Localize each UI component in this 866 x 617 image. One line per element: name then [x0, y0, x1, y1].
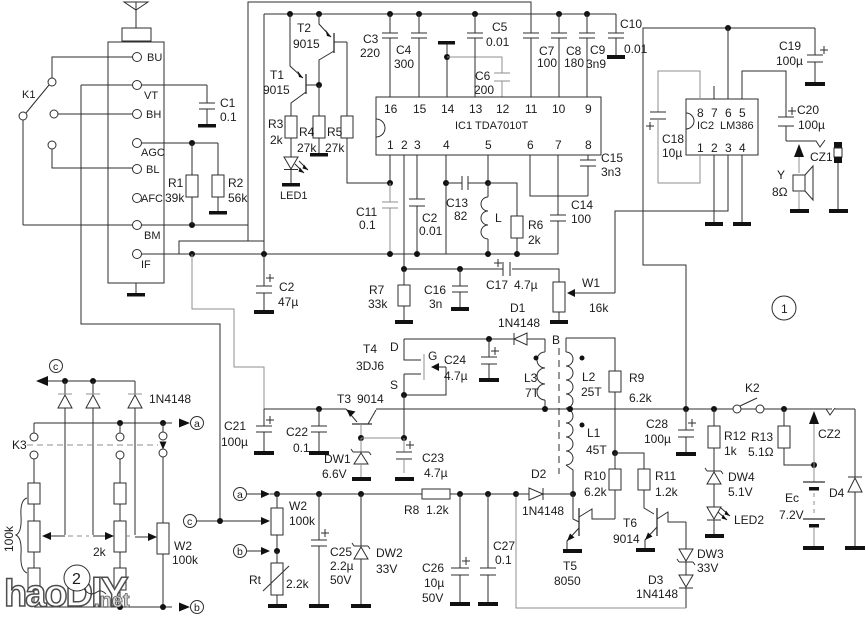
pin 13 — [469, 102, 483, 116]
svg-text:0.01: 0.01 — [486, 35, 510, 49]
svg-text:C10: C10 — [620, 17, 642, 31]
transformer B label — [552, 333, 560, 347]
junction a-W2 — [274, 491, 280, 497]
ground C23 — [395, 477, 414, 481]
ground Ec — [803, 546, 824, 550]
wire VT row — [81, 84, 207, 86]
wire row pin2 feed — [404, 269, 559, 282]
capacitor C23 — [396, 438, 448, 480]
svg-text:2: 2 — [711, 141, 718, 155]
svg-text:T4: T4 — [363, 342, 377, 356]
pin 10 — [552, 102, 566, 116]
svg-text:9015: 9015 — [263, 83, 290, 97]
svg-text:9014: 9014 — [613, 532, 640, 546]
potentiometer W2b 100k — [126, 457, 199, 607]
ground C22 — [309, 451, 329, 455]
svg-text:2k: 2k — [93, 545, 107, 559]
battery Ec — [779, 465, 825, 546]
capacitor C1 — [199, 85, 237, 124]
ground Rt — [268, 604, 287, 608]
svg-text:7: 7 — [555, 138, 562, 152]
junction pin6 top — [725, 25, 731, 31]
svg-text:50V: 50V — [422, 591, 443, 605]
svg-text:100µ: 100µ — [776, 54, 803, 68]
svg-text:0.1: 0.1 — [495, 553, 512, 567]
junction rail-R6 — [514, 251, 520, 257]
transistor T3 9014 — [337, 392, 384, 438]
svg-text:R2: R2 — [228, 176, 244, 190]
svg-text:33V: 33V — [376, 562, 397, 576]
svg-text:LED1: LED1 — [280, 190, 308, 202]
potentiometer W1 — [553, 276, 615, 320]
capacitor C2 pin3 — [409, 155, 443, 254]
resistor R6 — [488, 183, 544, 254]
pin 1 IC2 — [697, 141, 704, 155]
svg-text:C2: C2 — [422, 211, 438, 225]
junction T1 emitter rail — [287, 11, 293, 17]
svg-text:9015: 9015 — [293, 37, 320, 51]
terminal AGC — [133, 139, 165, 160]
wire BL to K1 — [52, 149, 133, 168]
switch K3 — [12, 423, 167, 459]
svg-text:1: 1 — [387, 138, 394, 152]
svg-text:C6: C6 — [475, 69, 491, 83]
svg-text:8: 8 — [585, 138, 592, 152]
svg-text:BL: BL — [146, 164, 159, 176]
node b source — [234, 545, 271, 559]
ground speaker — [790, 209, 809, 213]
svg-text:100k: 100k — [289, 514, 316, 528]
diode K3a 1N4148 — [58, 381, 72, 535]
svg-text:16: 16 — [384, 102, 398, 116]
node c top marker — [50, 360, 63, 374]
svg-text:47µ: 47µ — [278, 295, 298, 309]
svg-text:BH: BH — [146, 109, 161, 121]
junction rail-C2e — [261, 251, 267, 257]
pin 2 — [401, 138, 408, 152]
junction L1 L2 tap — [567, 406, 573, 412]
svg-text:b: b — [237, 546, 243, 558]
pin 6 IC2 — [725, 106, 732, 120]
LED LED2 — [707, 507, 764, 534]
svg-text:6.6V: 6.6V — [322, 467, 347, 481]
node 2 marker — [64, 565, 106, 594]
wire c bus with arrow — [36, 376, 135, 386]
svg-text:56k: 56k — [228, 191, 248, 205]
svg-text:6.2k: 6.2k — [584, 485, 608, 499]
capacitor C13 — [446, 176, 488, 223]
capacitor C9 — [579, 11, 606, 97]
svg-text:W2: W2 — [174, 539, 192, 553]
diode D2 1N4148 — [516, 467, 573, 518]
svg-text:100µ: 100µ — [798, 118, 825, 132]
svg-text:T3: T3 — [337, 392, 351, 406]
svg-text:14: 14 — [441, 102, 455, 116]
ground W1 — [550, 320, 568, 324]
svg-text:300: 300 — [394, 57, 414, 71]
wire pin6 drop — [727, 28, 729, 99]
junction D1-C24 — [486, 336, 492, 342]
svg-text:16k: 16k — [589, 301, 609, 315]
svg-text:C28: C28 — [646, 417, 668, 431]
junction C23 — [401, 435, 407, 441]
svg-text:C5: C5 — [492, 20, 508, 34]
inductor L3 — [524, 339, 545, 409]
capacitor C8 — [551, 11, 584, 97]
svg-text:VT: VT — [144, 90, 158, 102]
resistor R3 — [268, 116, 297, 157]
junction c-VT — [217, 518, 223, 524]
wire pin5 — [487, 155, 489, 183]
ground C24 — [479, 378, 499, 382]
svg-text:C27: C27 — [493, 539, 515, 553]
node a source — [234, 488, 271, 502]
capacitor C20 — [742, 71, 825, 141]
op-amp U1 IC1 TDA7010T body — [376, 97, 601, 155]
wire pin1 — [389, 155, 391, 183]
svg-text:6.2k: 6.2k — [629, 391, 653, 405]
diode D1 1N4148 — [489, 301, 545, 345]
svg-text:27k: 27k — [325, 141, 345, 155]
svg-text:S: S — [390, 378, 398, 392]
wire c to W2 wiper — [196, 517, 270, 525]
svg-text:LED2: LED2 — [734, 513, 764, 527]
svg-text:2: 2 — [401, 138, 408, 152]
wire W1 wiper to IC2 pin3 — [615, 155, 728, 293]
svg-text:C18: C18 — [662, 132, 684, 146]
svg-text:100k: 100k — [2, 525, 16, 552]
pin 1 — [387, 138, 394, 152]
ground C10 — [607, 55, 625, 59]
svg-text:1N4148: 1N4148 — [498, 316, 540, 330]
svg-text:0.1: 0.1 — [359, 218, 376, 232]
svg-text:W2: W2 — [289, 499, 307, 513]
ground pin2 — [705, 155, 723, 226]
transistor T2 — [293, 14, 347, 85]
zener DW4 — [705, 468, 755, 507]
ground R4 — [310, 153, 328, 157]
wire IF step up — [179, 241, 264, 254]
ground R2 — [209, 211, 227, 215]
svg-text:2k: 2k — [270, 133, 284, 147]
svg-text:180: 180 — [564, 56, 584, 70]
svg-text:15: 15 — [413, 102, 427, 116]
wire T6 collector down — [685, 522, 687, 549]
node c source — [184, 515, 197, 529]
potentiometer chain1 — [28, 521, 65, 552]
svg-text:D: D — [390, 340, 399, 354]
junction brow mid — [117, 604, 123, 610]
svg-text:4.7µ: 4.7µ — [444, 369, 468, 383]
ground DW1 — [352, 477, 371, 481]
op-amp U2 IC2 LM386 body — [686, 99, 758, 155]
svg-text:R8: R8 — [404, 503, 420, 517]
svg-text:7T: 7T — [525, 386, 540, 400]
junction L3 tap — [542, 406, 548, 412]
svg-text:LM386: LM386 — [720, 120, 754, 132]
capacitor C10 — [608, 14, 648, 56]
transformer core — [558, 348, 560, 474]
pin 3 — [414, 138, 421, 152]
wire node to R11 — [615, 453, 644, 469]
capacitor C26 — [422, 494, 470, 605]
junction T5 base node — [570, 491, 576, 497]
svg-text:3: 3 — [725, 141, 732, 155]
svg-text:3DJ6: 3DJ6 — [356, 359, 384, 373]
svg-text:W1: W1 — [582, 276, 600, 290]
pin 6 — [527, 138, 534, 152]
diode K3b 1N4148 — [86, 381, 100, 535]
tuner module box — [108, 42, 164, 283]
wire b row K3 — [34, 603, 190, 612]
resistor R4 — [297, 85, 325, 155]
wire IF detour to C7 — [248, 2, 531, 241]
svg-text:1k: 1k — [724, 444, 738, 458]
svg-text:4: 4 — [739, 141, 746, 155]
inductor L1 — [566, 409, 607, 494]
tuner ground — [127, 283, 145, 297]
capacitor C22 — [286, 409, 327, 455]
ground CZ1 sleeve — [829, 209, 848, 213]
regulated rail right — [376, 408, 832, 410]
junction C26 — [457, 491, 463, 497]
wire a row — [270, 493, 422, 495]
jack CZ1 — [786, 140, 833, 173]
pin 11 — [525, 102, 538, 116]
svg-text:T6: T6 — [623, 516, 637, 530]
wire pin6 to pin8 — [530, 155, 588, 196]
svg-text:3n3: 3n3 — [601, 165, 621, 179]
svg-text:D4: D4 — [829, 486, 845, 500]
junction a-C25 — [316, 491, 322, 497]
svg-text:4: 4 — [443, 138, 450, 152]
capacitor C14 — [550, 155, 593, 254]
svg-text:82: 82 — [454, 209, 468, 223]
svg-text:DW3: DW3 — [697, 547, 724, 561]
svg-text:12: 12 — [496, 102, 510, 116]
svg-text:4.7µ: 4.7µ — [424, 466, 448, 480]
capacitor C19 — [776, 28, 828, 82]
pin 9 — [585, 102, 592, 116]
svg-text:1: 1 — [781, 302, 788, 316]
resistor R2 — [212, 143, 248, 211]
svg-text:5: 5 — [485, 138, 492, 152]
junction rail-zigzag — [189, 251, 195, 257]
zener DW2 — [352, 494, 403, 604]
pin 7 — [555, 138, 562, 152]
transistor T6 9014 — [613, 508, 686, 548]
speaker Y — [772, 166, 813, 209]
svg-text:a: a — [194, 418, 200, 430]
junction pin1 node — [387, 180, 393, 186]
svg-text:45T: 45T — [586, 443, 607, 457]
svg-text:5.1V: 5.1V — [728, 485, 753, 499]
svg-text:0.01: 0.01 — [419, 224, 443, 238]
power tap bar pin14 — [438, 41, 455, 97]
diode D4 — [829, 409, 862, 546]
LED LED1 — [280, 157, 308, 202]
svg-text:C2: C2 — [279, 280, 295, 294]
wire zigzag VCC to regulator — [192, 254, 264, 409]
capacitor C24 — [444, 339, 499, 383]
pin 12 — [496, 102, 510, 116]
wire VT tuning line down to node c — [81, 85, 220, 521]
svg-text:AFC: AFC — [141, 193, 163, 205]
svg-text:200: 200 — [474, 83, 494, 97]
svg-text:IF: IF — [141, 259, 151, 271]
svg-text:R4: R4 — [299, 125, 315, 139]
svg-text:L1: L1 — [587, 426, 601, 440]
svg-text:L: L — [495, 211, 502, 225]
capacitor C5 — [467, 11, 510, 97]
svg-text:6: 6 — [725, 106, 732, 120]
resistor chain1 lower — [28, 552, 40, 607]
pin 4 — [443, 138, 450, 152]
svg-text:K3: K3 — [12, 438, 27, 452]
svg-text:C26: C26 — [422, 561, 444, 575]
node 1 marker — [772, 296, 796, 320]
transistor T4 3DJ6 — [356, 339, 446, 395]
svg-text:C16: C16 — [424, 283, 446, 297]
ground LED1 — [282, 183, 300, 187]
capacitor C3 — [360, 11, 398, 97]
potentiometer chain2 2k — [68, 521, 126, 559]
resistor R1 — [165, 143, 198, 225]
top supply rail — [264, 13, 616, 15]
svg-text:3n: 3n — [429, 297, 442, 311]
svg-text:100: 100 — [537, 56, 557, 70]
svg-text:C17: C17 — [486, 278, 508, 292]
label 1N4148 bank — [149, 392, 191, 406]
wire T4 drain to D1 — [404, 338, 489, 340]
ground LED2 — [705, 534, 724, 538]
svg-text:R12: R12 — [724, 429, 746, 443]
junction BM-R1 — [189, 222, 195, 228]
svg-text:6: 6 — [527, 138, 534, 152]
ground C2e — [254, 310, 274, 314]
junction arow mid — [117, 420, 123, 426]
capacitor C15 — [580, 151, 623, 196]
junction brow right — [160, 604, 166, 610]
svg-text:11: 11 — [525, 102, 538, 116]
svg-text:10: 10 — [552, 102, 566, 116]
wire base node to C23 — [361, 437, 404, 439]
thermistor Rt — [249, 551, 310, 604]
svg-text:R1: R1 — [168, 176, 184, 190]
svg-text:7.2V: 7.2V — [779, 508, 804, 522]
transistor T5 8050 — [554, 494, 615, 588]
capacitor C18 — [646, 71, 700, 183]
wire pin7 stub — [713, 86, 715, 99]
pin 4 IC2 — [739, 141, 746, 155]
junction diode1 — [62, 378, 68, 384]
ground C1 — [198, 124, 216, 128]
potentiometer W2 — [271, 494, 316, 551]
junction T2 emitter rail — [316, 11, 322, 17]
pin 8 — [585, 138, 592, 152]
pin 16 — [384, 102, 398, 116]
pin 5 IC2 — [739, 106, 746, 120]
svg-text:7: 7 — [711, 106, 718, 120]
svg-text:C19: C19 — [779, 39, 801, 53]
svg-text:1N4148: 1N4148 — [636, 587, 678, 601]
junction C27 — [485, 491, 491, 497]
wire IF stub — [142, 253, 180, 255]
svg-text:2k: 2k — [528, 233, 542, 247]
junction rail-C2 — [414, 251, 420, 257]
watermark haoDIY.net — [4, 568, 130, 615]
svg-text:10µ: 10µ — [662, 146, 682, 160]
ground pin4 — [733, 155, 751, 226]
svg-text:100µ: 100µ — [221, 435, 248, 449]
brace 100k — [2, 498, 27, 573]
ground C21 — [254, 451, 274, 455]
svg-text:L2: L2 — [582, 370, 596, 384]
svg-text:a: a — [237, 489, 243, 501]
ground DW2 — [351, 604, 371, 608]
svg-text:R7: R7 — [369, 283, 385, 297]
pin 2 IC2 — [711, 141, 718, 155]
svg-text:IC1 TDA7010T: IC1 TDA7010T — [455, 120, 528, 132]
terminal BM — [133, 221, 161, 243]
capacitor C11 — [356, 183, 398, 254]
junction rail-L — [485, 251, 491, 257]
regulated rail left — [264, 408, 346, 410]
svg-text:C21: C21 — [224, 419, 246, 433]
pin 8 IC2 — [697, 106, 704, 120]
wire BH to K1 — [58, 113, 133, 115]
svg-text:50V: 50V — [330, 573, 351, 587]
svg-text:DW4: DW4 — [728, 470, 755, 484]
ground C28 — [676, 452, 696, 456]
ground C19 — [805, 82, 825, 86]
junction C16 — [457, 266, 463, 272]
svg-text:Y: Y — [777, 168, 785, 182]
terminal AFC — [133, 193, 164, 205]
svg-text:2.2µ: 2.2µ — [330, 559, 354, 573]
svg-text:8: 8 — [697, 106, 704, 120]
svg-text:1: 1 — [697, 141, 704, 155]
svg-text:0.01: 0.01 — [624, 42, 648, 56]
wire T4 source down — [403, 395, 405, 438]
svg-text:D1: D1 — [510, 301, 526, 315]
terminal BH — [133, 109, 162, 121]
wire K1 pole to BM — [22, 120, 24, 225]
svg-text:100k: 100k — [172, 553, 199, 567]
svg-text:C23: C23 — [422, 451, 444, 465]
resistor R13 — [748, 409, 814, 465]
junction R7 — [401, 266, 407, 272]
svg-text:c: c — [187, 516, 192, 528]
ground C25 — [309, 604, 329, 608]
capacitor C4 — [394, 11, 427, 97]
svg-text:C20: C20 — [797, 103, 819, 117]
svg-text:1.2k: 1.2k — [426, 503, 450, 517]
ground T5 — [563, 549, 582, 553]
svg-text:8Ω: 8Ω — [772, 185, 788, 199]
switch K1 — [19, 78, 58, 149]
junction AGC-R1 — [189, 140, 195, 146]
wire pin2 — [403, 155, 405, 269]
capacitor C7 — [523, 33, 557, 97]
ground C16 — [451, 307, 469, 311]
terminal BU — [133, 52, 163, 64]
svg-text:100µ: 100µ — [644, 432, 671, 446]
svg-text:D3: D3 — [648, 573, 664, 587]
svg-text:DW2: DW2 — [376, 546, 403, 560]
junction R9 R10 R11 node — [612, 450, 618, 456]
svg-text:C13: C13 — [446, 196, 468, 210]
